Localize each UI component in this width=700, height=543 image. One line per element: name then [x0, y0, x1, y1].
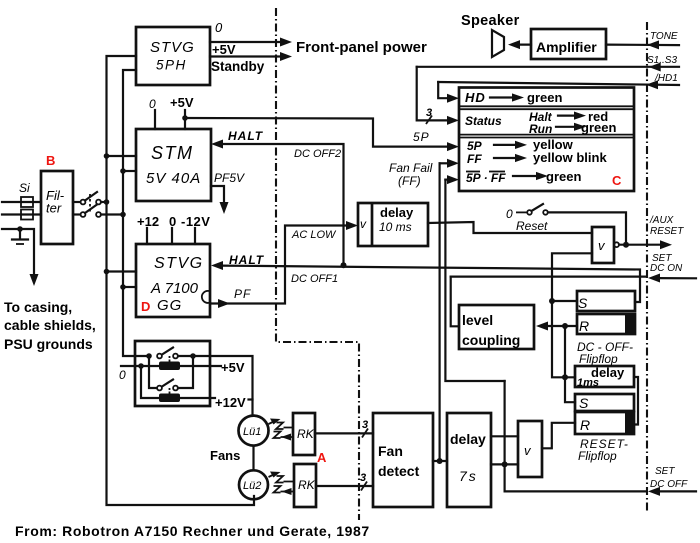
svg-text:coupling: coupling — [462, 332, 520, 348]
svg-text:S: S — [579, 395, 589, 411]
svg-text:detect: detect — [378, 463, 420, 479]
svg-text:3: 3 — [362, 419, 368, 431]
svg-text:SET: SET — [655, 466, 675, 477]
svg-text:Fans: Fans — [210, 448, 240, 463]
svg-text:STM: STM — [151, 143, 194, 163]
svg-text:0: 0 — [119, 368, 126, 382]
svg-text:Flipflop: Flipflop — [578, 449, 617, 463]
svg-text:0: 0 — [169, 214, 176, 229]
svg-text:/AUX: /AUX — [649, 215, 674, 226]
svg-text:delay: delay — [380, 205, 414, 220]
svg-text:3: 3 — [426, 107, 432, 119]
svg-text:green: green — [581, 120, 616, 135]
svg-text:S1..S3: S1..S3 — [647, 55, 677, 66]
svg-text:To casing,: To casing, — [4, 299, 72, 315]
svg-text:v: v — [360, 217, 367, 231]
svg-text:Si: Si — [19, 181, 30, 195]
svg-text:Front-panel power: Front-panel power — [296, 39, 427, 56]
svg-text:AC LOW: AC LOW — [291, 229, 337, 241]
svg-text:B: B — [46, 153, 55, 168]
svg-text:3: 3 — [360, 472, 366, 484]
svg-text:DC OFF: DC OFF — [650, 479, 688, 490]
svg-text:ter: ter — [46, 201, 62, 216]
svg-text:HD: HD — [465, 90, 486, 105]
svg-text:10 ms: 10 ms — [379, 220, 412, 234]
svg-text:Standby: Standby — [211, 59, 265, 74]
svg-text:0: 0 — [149, 97, 156, 111]
svg-text:7s: 7s — [459, 468, 478, 484]
svg-text:0: 0 — [215, 20, 223, 35]
svg-text:Fan Fail: Fan Fail — [389, 161, 433, 175]
svg-text:Lü1: Lü1 — [243, 426, 261, 438]
svg-text:Speaker: Speaker — [461, 13, 520, 29]
svg-text:RK: RK — [297, 427, 315, 441]
svg-text:5PH: 5PH — [156, 58, 187, 73]
svg-text:PF: PF — [234, 287, 251, 301]
svg-text:+5V: +5V — [170, 95, 194, 110]
svg-text:RK: RK — [298, 478, 316, 492]
svg-text:A: A — [317, 450, 327, 465]
svg-text:cable shields,: cable shields, — [4, 317, 96, 333]
svg-text:DC OFF2: DC OFF2 — [294, 148, 341, 160]
svg-text:0: 0 — [506, 207, 513, 221]
svg-text:A 7100: A 7100 — [150, 280, 199, 297]
svg-text:C: C — [612, 173, 622, 188]
svg-text:TONE: TONE — [650, 31, 678, 42]
svg-text:green: green — [527, 90, 562, 105]
svg-text:D: D — [141, 299, 150, 314]
svg-text:5V 40A: 5V 40A — [146, 170, 201, 187]
svg-text:yellow blink: yellow blink — [533, 150, 607, 165]
svg-text:FF: FF — [467, 152, 482, 166]
svg-text:5P: 5P — [467, 139, 483, 153]
svg-text:level: level — [462, 312, 493, 328]
svg-text:green: green — [546, 169, 581, 184]
svg-text:R: R — [580, 417, 590, 433]
svg-text:Reset: Reset — [516, 219, 548, 233]
svg-text:Fan: Fan — [378, 443, 403, 459]
svg-text:PF5V: PF5V — [214, 171, 245, 185]
svg-text:STVG: STVG — [154, 255, 204, 272]
svg-text:+12V: +12V — [215, 395, 246, 410]
svg-text:-12V: -12V — [181, 214, 210, 229]
svg-text:(FF): (FF) — [398, 174, 421, 188]
svg-text:Status: Status — [465, 114, 502, 128]
svg-text:HALT: HALT — [229, 253, 265, 267]
svg-text:+5V: +5V — [221, 360, 245, 375]
svg-text:RESET: RESET — [650, 226, 684, 237]
svg-text:Run: Run — [529, 122, 552, 136]
svg-text:5P: 5P — [413, 130, 430, 144]
svg-text:STVG: STVG — [150, 39, 195, 56]
svg-text:/HD1: /HD1 — [654, 73, 678, 84]
svg-text:From: Robotron A7150 Rechner u: From: Robotron A7150 Rechner und Gerate,… — [15, 523, 370, 539]
svg-text:delay: delay — [450, 431, 486, 447]
svg-text:PSU grounds: PSU grounds — [4, 336, 93, 352]
svg-text:HALT: HALT — [228, 129, 264, 143]
svg-text:5P · FF: 5P · FF — [466, 171, 506, 185]
svg-text:S: S — [578, 295, 588, 311]
svg-text:DC OFF1: DC OFF1 — [291, 273, 338, 285]
svg-text:1ms: 1ms — [577, 377, 599, 389]
svg-text:GG: GG — [157, 297, 182, 314]
svg-text:Amplifier: Amplifier — [536, 39, 597, 55]
svg-text:Lü2: Lü2 — [243, 480, 261, 492]
svg-text:DC ON: DC ON — [650, 263, 683, 274]
svg-text:R: R — [579, 318, 589, 334]
svg-text:Flipflop: Flipflop — [579, 352, 618, 366]
svg-text:+5V: +5V — [212, 42, 236, 57]
svg-text:+12: +12 — [137, 214, 159, 229]
